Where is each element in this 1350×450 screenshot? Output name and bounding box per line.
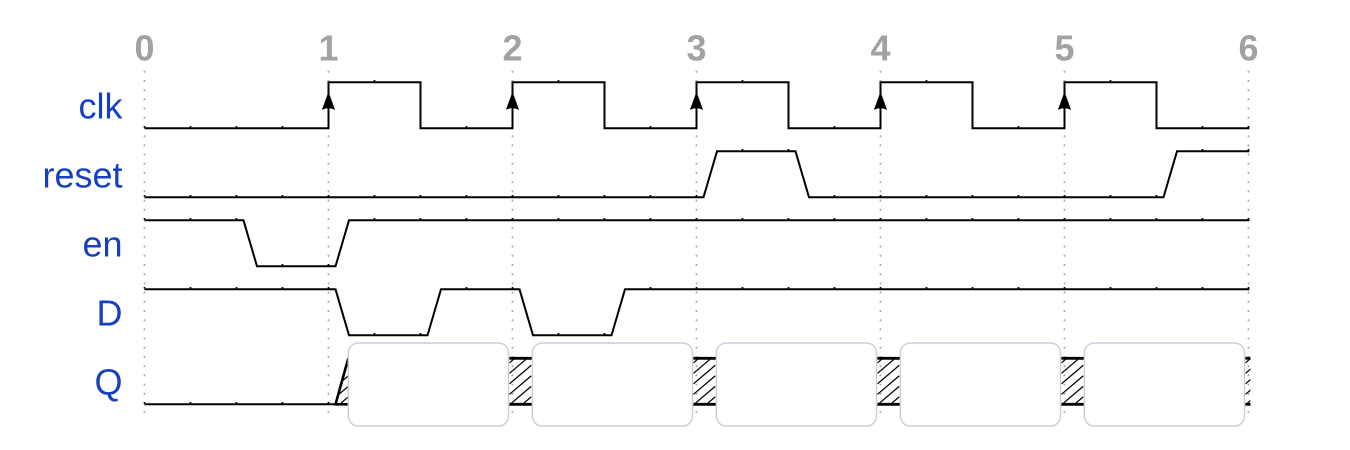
svg-text:clk: clk bbox=[79, 86, 124, 127]
Q data box 2 bbox=[532, 343, 692, 426]
svg-text:6: 6 bbox=[1238, 28, 1258, 69]
svg-text:4: 4 bbox=[870, 28, 890, 69]
reset brick ticks bbox=[144, 149, 1250, 197]
svg-text:5: 5 bbox=[1054, 28, 1074, 69]
Q unknown X-brick at t=2 bbox=[509, 358, 532, 404]
Q brick ticks bbox=[144, 402, 330, 404]
gridline t=2 bbox=[512, 71, 514, 414]
Q unknown X-brick at t=6 (clipped) bbox=[1245, 358, 1267, 404]
svg-text:3: 3 bbox=[686, 28, 706, 69]
clk rising-edge arrow t=5 bbox=[1058, 92, 1071, 110]
en brick ticks bbox=[144, 218, 1250, 266]
svg-text:reset: reset bbox=[42, 155, 122, 196]
gridline t=5 bbox=[1064, 71, 1066, 414]
D waveform bbox=[145, 289, 1250, 335]
Q unknown X-brick at t=4 bbox=[877, 358, 900, 404]
Q data box 3 bbox=[716, 343, 876, 426]
Q low wire bbox=[145, 403, 336, 405]
clk rising-edge arrow t=4 bbox=[874, 92, 887, 110]
svg-text:2: 2 bbox=[502, 28, 522, 69]
Q data box 4 bbox=[900, 343, 1060, 426]
Q unknown X-brick at t=5 bbox=[1061, 358, 1084, 404]
reset waveform bbox=[145, 151, 1250, 197]
svg-text:0: 0 bbox=[134, 28, 154, 69]
Q unknown X-brick at t=3 bbox=[693, 358, 716, 404]
svg-text:D: D bbox=[97, 293, 123, 334]
svg-text:en: en bbox=[82, 224, 122, 265]
gridline t=1 bbox=[328, 71, 330, 414]
svg-text:1: 1 bbox=[318, 28, 338, 69]
clk rising-edge arrow t=1 bbox=[322, 92, 335, 110]
clk brick ticks bbox=[144, 80, 1250, 128]
gridline t=0 bbox=[144, 71, 146, 414]
clk rising-edge arrow t=3 bbox=[690, 92, 703, 110]
clk waveform bbox=[145, 82, 1250, 128]
svg-text:Q: Q bbox=[94, 362, 122, 403]
clk rising-edge arrow t=2 bbox=[506, 92, 519, 110]
Q data box 1 bbox=[348, 343, 508, 426]
D brick ticks bbox=[144, 287, 1250, 335]
Q data box 5 bbox=[1084, 343, 1244, 426]
en waveform bbox=[145, 220, 1250, 266]
gridline t=6 bbox=[1248, 71, 1250, 414]
gridline t=4 bbox=[880, 71, 882, 414]
Q transition X-region at t=1 bbox=[327, 358, 349, 404]
gridline t=3 bbox=[696, 71, 698, 414]
